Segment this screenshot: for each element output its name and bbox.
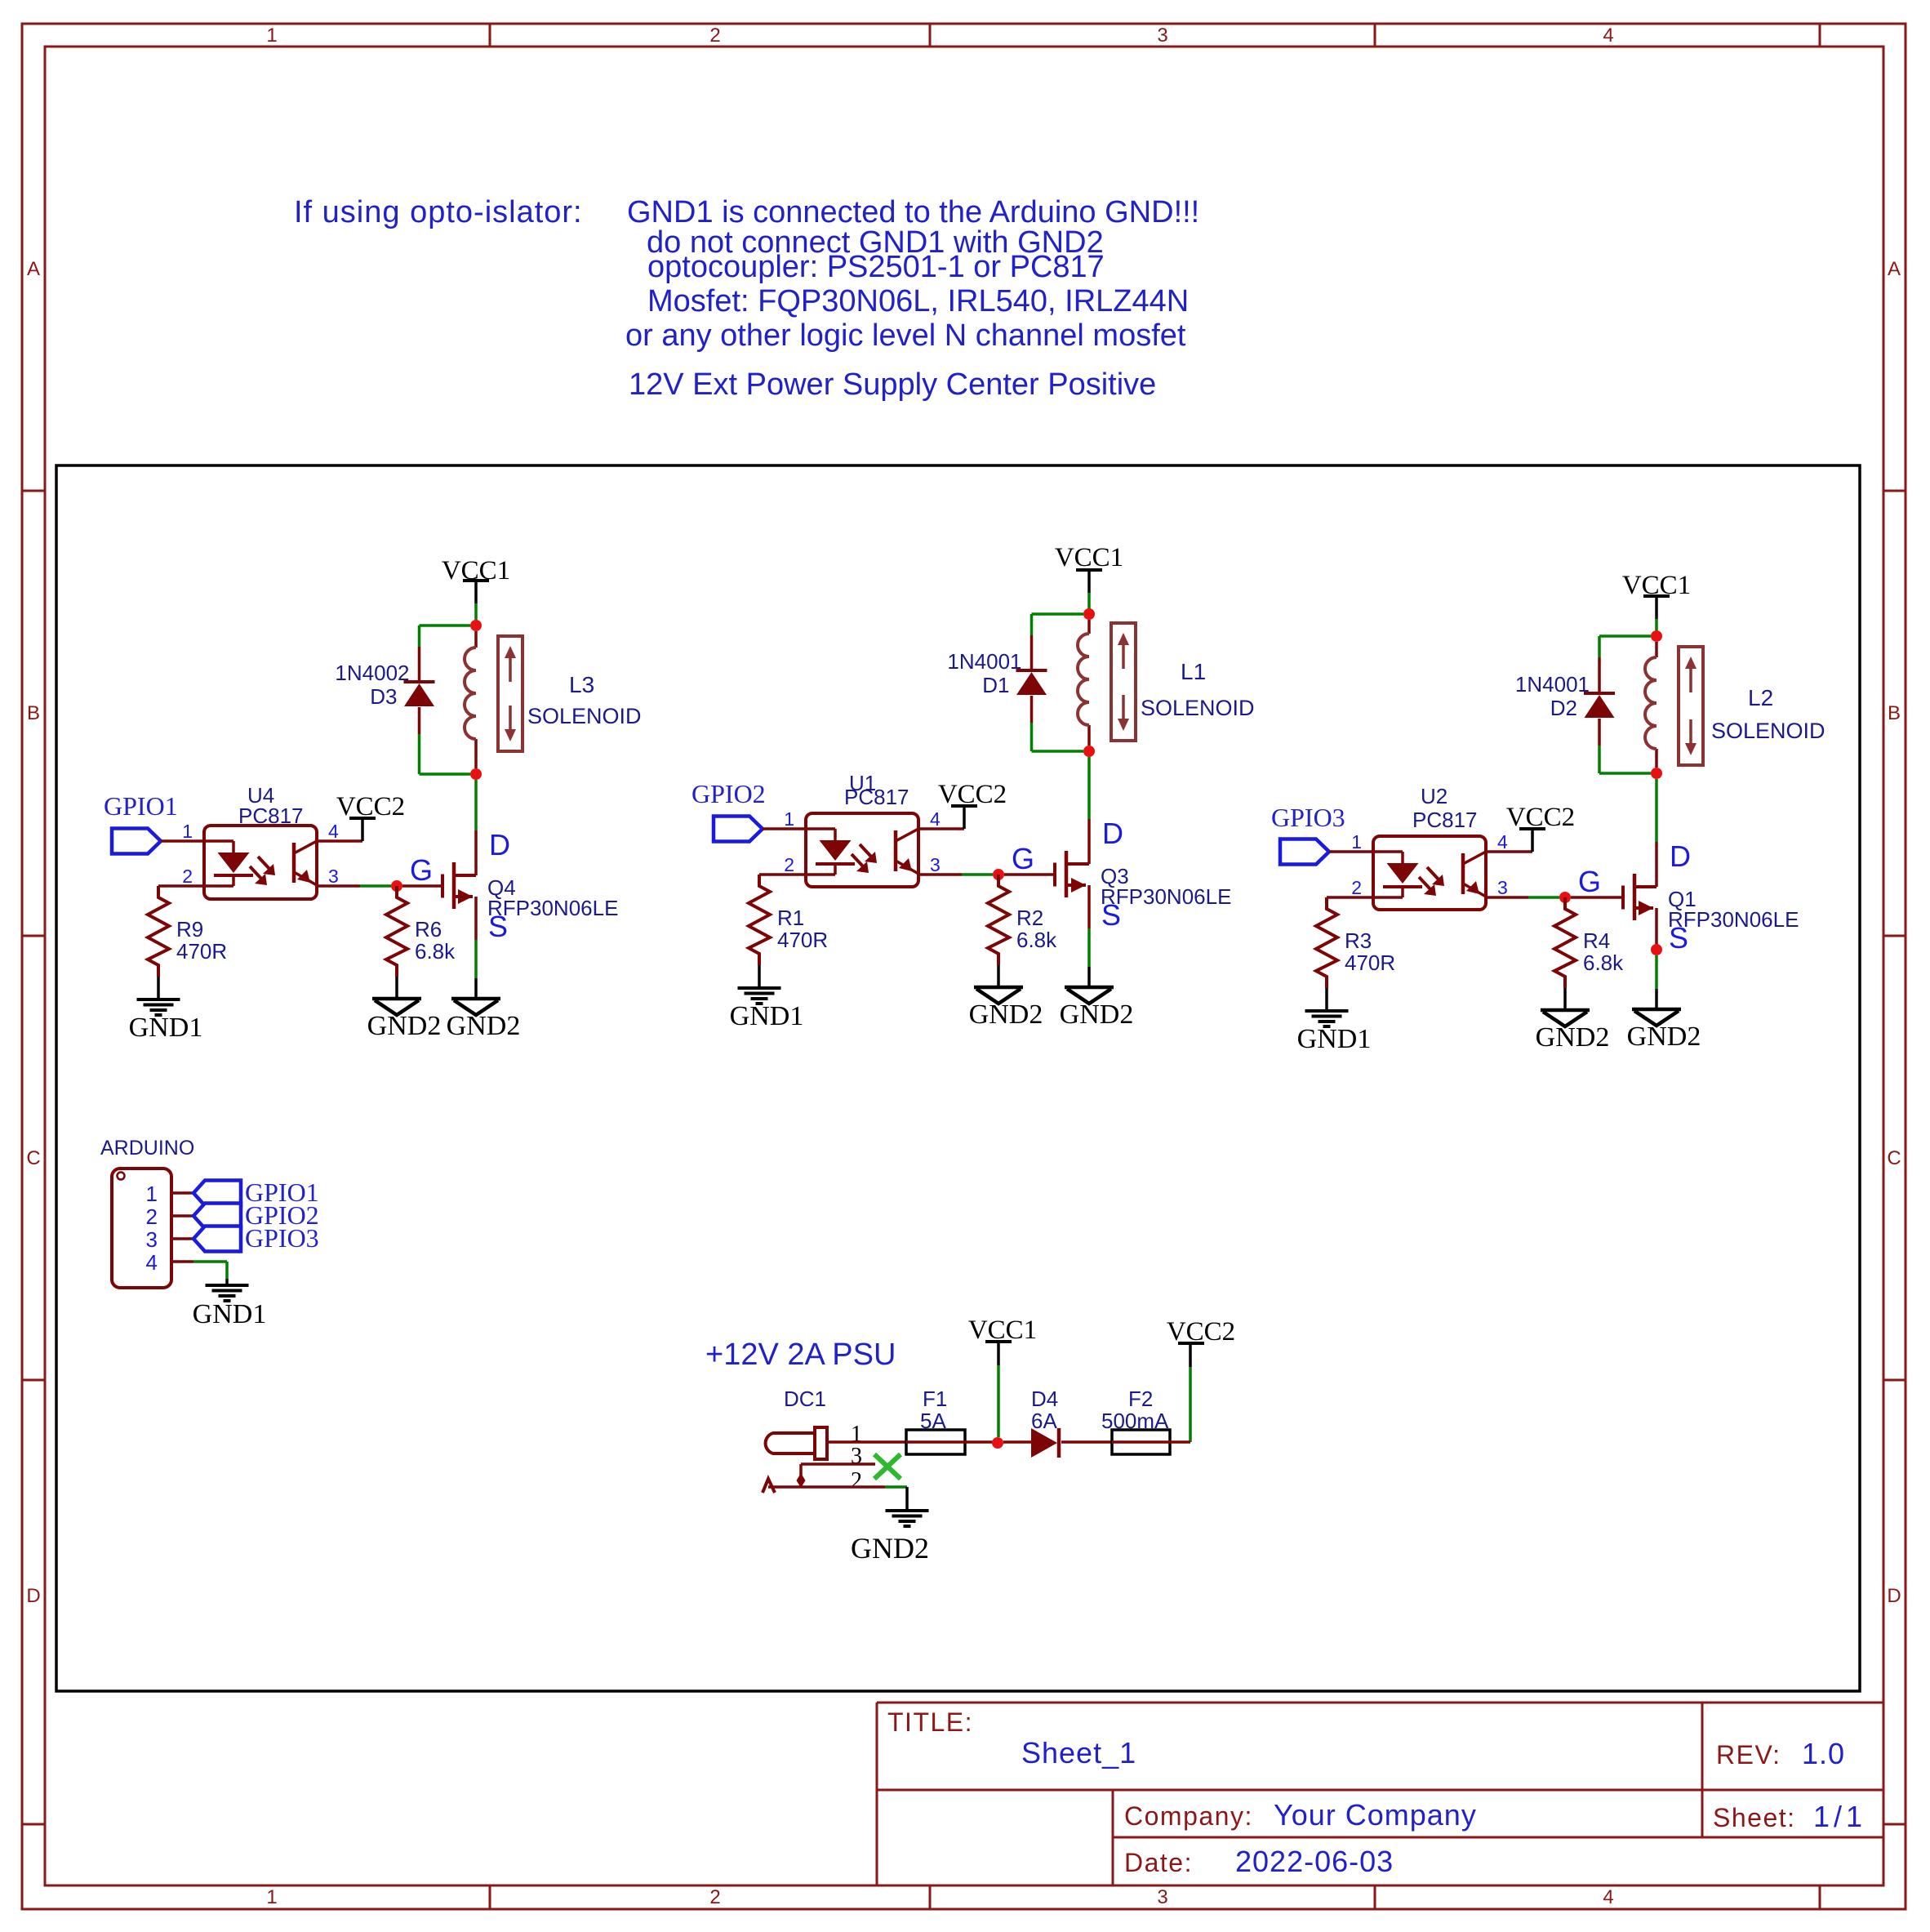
svg-text:6.8k: 6.8k <box>415 939 456 964</box>
resistor R3 470R <box>1316 897 1337 988</box>
svg-text:D3: D3 <box>370 684 397 709</box>
svg-text:GPIO3: GPIO3 <box>245 1223 319 1253</box>
svg-text:R4: R4 <box>1583 928 1610 953</box>
svg-text:1: 1 <box>182 821 193 842</box>
svg-text:470R: 470R <box>1345 950 1395 975</box>
svg-text:D: D <box>1670 839 1691 873</box>
resistor R2 6.8k <box>988 875 1009 965</box>
net port GPIO1 <box>112 829 161 854</box>
wire pin4 to VCC2 <box>317 839 362 843</box>
wire VCC1 stem <box>1087 571 1091 593</box>
wire resistor to GND1 <box>1325 988 1328 1009</box>
svg-text:12V Ext Power Supply Center Po: 12V Ext Power Supply Center Positive <box>629 367 1156 402</box>
svg-text:D: D <box>1102 817 1123 850</box>
svg-text:ARDUINO: ARDUINO <box>100 1137 194 1160</box>
svg-text:PC817: PC817 <box>238 804 304 828</box>
wire source <box>1087 885 1091 928</box>
wire diode D1 anode/cathode stubs <box>1030 635 1034 670</box>
svg-text:GND2: GND2 <box>1536 1022 1610 1053</box>
power symbol VCC1 (Q1 drain branch) <box>1622 571 1691 600</box>
svg-text:+12V 2A PSU: +12V 2A PSU <box>705 1338 896 1372</box>
svg-text:GND2: GND2 <box>1627 1022 1701 1052</box>
svg-text:Company:: Company: <box>1124 1801 1253 1831</box>
svg-text:A: A <box>27 258 40 280</box>
net port GPIO3 (ARDUINO side) <box>193 1226 241 1252</box>
svg-text:6.8k: 6.8k <box>1583 950 1624 975</box>
svg-text:2: 2 <box>1351 877 1362 898</box>
wire VCC1 stem <box>474 581 478 603</box>
svg-text:DC1: DC1 <box>784 1387 826 1411</box>
fuse F1 5A <box>906 1430 965 1454</box>
wire diode bottom <box>418 707 421 734</box>
svg-text:D: D <box>1887 1585 1901 1607</box>
svg-text:6A: 6A <box>1031 1409 1057 1433</box>
node junction top (VCC1) <box>470 620 482 631</box>
resistor R4 6.8k <box>1554 897 1576 988</box>
svg-text:R3: R3 <box>1345 928 1372 953</box>
net port GPIO3 <box>1280 839 1329 865</box>
net port GPIO1 (ARDUINO side) <box>193 1181 241 1206</box>
svg-text:C: C <box>26 1147 40 1169</box>
row ticks left/right <box>22 490 45 492</box>
svg-text:A: A <box>1888 258 1901 280</box>
svg-text:GND2: GND2 <box>367 1011 442 1041</box>
svg-text:D: D <box>489 828 510 861</box>
wire resistor to GND2 <box>1563 988 1567 1009</box>
node junction bottom (drain) <box>470 768 482 780</box>
wire pin3 to gate junction <box>1486 896 1528 899</box>
wire pin3 to gate junction <box>317 884 360 888</box>
ground GND2 (source) <box>451 999 500 1015</box>
wire diode D2 anode/cathode stubs <box>1598 657 1601 693</box>
svg-text:GND1: GND1 <box>193 1299 267 1329</box>
transistor Q4 RFP30N06LE <box>442 862 476 909</box>
svg-text:SOLENOID: SOLENOID <box>1711 719 1825 743</box>
svg-text:GND2: GND2 <box>447 1011 521 1041</box>
node junction top (VCC1) <box>1651 630 1662 642</box>
connector DC1 barrel jack <box>766 1427 827 1459</box>
svg-text:R2: R2 <box>1016 906 1043 930</box>
ground GND2 (gate resistor) <box>1541 1010 1590 1026</box>
node gate junction <box>1559 892 1571 903</box>
wire junction to D4 <box>1003 1440 1031 1444</box>
node junction bottom (drain) <box>1651 768 1662 779</box>
svg-text:B: B <box>1888 702 1901 724</box>
fuse F2 500mA <box>1112 1430 1170 1454</box>
ground GND1 <box>738 986 781 1005</box>
wire resistor to GND1 <box>157 977 160 998</box>
power symbol VCC2 <box>336 792 405 821</box>
svg-text:1N4001: 1N4001 <box>1515 672 1590 697</box>
svg-text:3: 3 <box>1497 877 1508 898</box>
pin 2 stub (ARDUINO) <box>171 1214 193 1218</box>
column ticks top/bottom <box>489 24 491 47</box>
wire VCC2 stem (PSU) <box>1189 1344 1192 1367</box>
wire D4 to F2 <box>1061 1440 1112 1444</box>
wire diode bottom <box>1030 696 1034 723</box>
svg-text:GPIO2: GPIO2 <box>692 779 766 808</box>
svg-text:3: 3 <box>930 854 941 875</box>
wire drain <box>1655 779 1658 842</box>
svg-text:SOLENOID: SOLENOID <box>1141 696 1255 720</box>
node junction top (VCC1) <box>1083 608 1095 620</box>
svg-text:Sheet_1: Sheet_1 <box>1021 1736 1136 1770</box>
power symbol VCC1 (PSU) <box>968 1315 1037 1345</box>
wire pin2 to resistor <box>759 873 806 876</box>
svg-text:3: 3 <box>1157 1886 1167 1908</box>
svg-text:1: 1 <box>266 24 277 47</box>
solenoid body L2 <box>1679 647 1703 765</box>
svg-text:4: 4 <box>146 1250 158 1275</box>
wire pin3 to gate junction <box>918 873 962 876</box>
svg-text:S: S <box>488 910 508 943</box>
svg-text:4: 4 <box>1497 831 1508 852</box>
wire inductor leads <box>1087 620 1091 634</box>
svg-text:1: 1 <box>266 1886 277 1908</box>
svg-text:4: 4 <box>1603 24 1613 47</box>
svg-text:R1: R1 <box>777 906 804 930</box>
wire inductor leads <box>1655 642 1658 657</box>
svg-text:optocoupler: PS2501-1 or PC817: optocoupler: PS2501-1 or PC817 <box>647 250 1105 284</box>
svg-text:470R: 470R <box>176 939 227 964</box>
DC1 switch link <box>799 1464 803 1487</box>
optocoupler U2 PC817 <box>1373 836 1486 910</box>
svg-text:Date:: Date: <box>1124 1848 1193 1877</box>
svg-text:Mosfet: FQP30N06L, IRL540, IRL: Mosfet: FQP30N06L, IRL540, IRLZ44N <box>647 284 1189 318</box>
svg-text:2: 2 <box>784 854 794 875</box>
svg-text:GND1: GND1 <box>1297 1024 1372 1054</box>
svg-text:1: 1 <box>784 808 794 830</box>
svg-text:GND1: GND1 <box>129 1013 203 1043</box>
wire junction to gate <box>1571 896 1623 899</box>
wire source <box>474 897 478 940</box>
wire GPIO flag to pin 1 <box>763 827 806 830</box>
wire VCC1 stem <box>1655 597 1658 619</box>
svg-text:3: 3 <box>146 1227 158 1252</box>
DC1 sleeve contact <box>763 1479 775 1493</box>
svg-text:1N4002: 1N4002 <box>335 661 409 685</box>
svg-text:R6: R6 <box>415 917 442 942</box>
svg-text:GPIO3: GPIO3 <box>1271 803 1345 832</box>
ground GND2 (PSU) <box>886 1509 929 1528</box>
svg-text:D1: D1 <box>982 673 1009 697</box>
svg-text:VCC1: VCC1 <box>1055 543 1123 572</box>
wire DC1 pin1 to F1 <box>827 1440 906 1444</box>
wire drain <box>474 780 478 830</box>
wire pin2 to GND2 <box>905 1487 909 1509</box>
power symbol VCC2 (PSU) <box>1167 1317 1235 1347</box>
diode D1 1N4001 <box>1016 670 1047 695</box>
svg-text:2022-06-03: 2022-06-03 <box>1235 1845 1394 1878</box>
ground GND1 <box>137 998 180 1017</box>
svg-text:2: 2 <box>182 866 193 887</box>
svg-text:GND1 is connected to the Ardui: GND1 is connected to the Arduino GND!!! <box>627 195 1199 229</box>
wire diode D3 anode/cathode stubs <box>418 647 421 682</box>
svg-text:D4: D4 <box>1031 1387 1058 1411</box>
wire junction to gate <box>1004 873 1055 876</box>
wire DC1 pin3 (switch) <box>801 1462 875 1466</box>
pin 4 stub (ARDUINO) <box>171 1260 193 1263</box>
wire GPIO flag to pin 1 <box>161 839 204 843</box>
svg-text:S: S <box>1101 898 1121 932</box>
svg-text:GND1: GND1 <box>730 1001 804 1031</box>
wire pin2 to resistor <box>158 884 204 888</box>
svg-text:PC817: PC817 <box>1412 808 1478 832</box>
svg-text:S: S <box>1669 921 1688 955</box>
net port GPIO2 <box>714 817 763 842</box>
wire top junction to diode <box>420 624 471 627</box>
title block frame <box>877 1703 1883 1885</box>
svg-text:U2: U2 <box>1421 784 1447 808</box>
svg-text:6.8k: 6.8k <box>1016 928 1057 952</box>
resistor R1 470R <box>749 875 770 965</box>
connector ARDUINO header <box>112 1169 171 1288</box>
wire inductor leads <box>474 631 478 648</box>
optocoupler U1 PC817 <box>806 813 918 887</box>
wire top junction to diode <box>1599 634 1651 638</box>
wire source <box>1655 908 1658 950</box>
wire GPIO flag to pin 1 <box>1329 850 1373 853</box>
svg-text:GND2: GND2 <box>851 1532 929 1565</box>
inductor L2 coil <box>1645 657 1657 749</box>
node source junction <box>1651 944 1662 955</box>
svg-text:2: 2 <box>146 1204 158 1229</box>
optocoupler U4 PC817 <box>204 826 317 899</box>
net port GPIO2 (ARDUINO side) <box>193 1204 241 1229</box>
node VCC1 junction (PSU) <box>992 1437 1003 1449</box>
svg-text:Sheet:: Sheet: <box>1713 1803 1796 1832</box>
svg-text:C: C <box>1887 1147 1901 1169</box>
wire VCC1 stem (PSU) <box>997 1342 1000 1365</box>
svg-text:D: D <box>26 1585 40 1607</box>
svg-text:TITLE:: TITLE: <box>887 1707 973 1737</box>
wire pin4 to VCC2 <box>1486 850 1532 853</box>
svg-text:2: 2 <box>709 1886 720 1908</box>
wire resistor to GND2 <box>395 977 398 998</box>
svg-text:L2: L2 <box>1748 685 1773 710</box>
svg-text:1: 1 <box>1351 831 1362 852</box>
svg-text:D2: D2 <box>1550 696 1577 720</box>
svg-text:1N4001: 1N4001 <box>947 649 1021 674</box>
svg-text:3: 3 <box>328 866 339 887</box>
ground GND2 (source) <box>1065 987 1114 1004</box>
solenoid body L3 <box>498 636 523 751</box>
solenoid body L1 <box>1111 623 1136 741</box>
svg-text:F1: F1 <box>923 1387 947 1411</box>
wire DC1 pin2 <box>768 1485 885 1489</box>
wire F2 to VCC2 <box>1170 1440 1190 1444</box>
pin 3 stub (ARDUINO) <box>171 1237 193 1240</box>
inductor L3 coil <box>465 648 476 739</box>
svg-text:Your Company: Your Company <box>1274 1798 1477 1832</box>
svg-text:G: G <box>410 853 433 887</box>
svg-text:REV:: REV: <box>1716 1740 1781 1770</box>
no-connect X on pin 3 <box>874 1454 901 1479</box>
svg-text:F2: F2 <box>1128 1387 1153 1411</box>
resistor R9 470R <box>148 886 169 977</box>
node gate junction <box>993 869 1004 880</box>
svg-text:5A: 5A <box>920 1409 946 1433</box>
svg-text:GPIO1: GPIO1 <box>104 791 178 821</box>
svg-text:GND2: GND2 <box>1060 999 1134 1030</box>
wire pin2 to resistor <box>1327 896 1373 899</box>
power symbol VCC2 <box>938 780 1007 809</box>
power symbol VCC1 (Q3 drain branch) <box>1055 543 1123 572</box>
svg-text:G: G <box>1578 865 1601 898</box>
schematic area border <box>56 465 1860 1691</box>
power symbol VCC1 (Q4 drain branch) <box>442 556 510 585</box>
svg-text:3: 3 <box>1157 24 1167 47</box>
node gate junction <box>391 880 402 892</box>
wire pin4 to VCC2 <box>918 827 964 830</box>
diode D2 1N4001 <box>1584 693 1615 718</box>
wire top junction to diode <box>1032 612 1084 616</box>
svg-text:PC817: PC817 <box>844 785 909 809</box>
ground GND2 (source) <box>1632 1009 1681 1026</box>
svg-text:SOLENOID: SOLENOID <box>527 704 642 728</box>
wire resistor to GND1 <box>758 965 761 986</box>
node junction bottom (drain) <box>1083 746 1095 757</box>
svg-text:1.0: 1.0 <box>1802 1737 1845 1770</box>
diode D4 6A <box>1031 1428 1059 1458</box>
svg-text:470R: 470R <box>777 928 828 952</box>
pin 1 stub (ARDUINO) <box>171 1191 193 1195</box>
svg-text:1: 1 <box>146 1182 158 1206</box>
svg-text:R9: R9 <box>176 917 203 942</box>
svg-text:4: 4 <box>930 808 941 830</box>
inductor L1 coil <box>1078 634 1089 725</box>
wire pin4 to GND1 <box>193 1260 227 1263</box>
ground GND1 (ARDUINO) <box>206 1284 249 1302</box>
svg-text:or any other logic level N cha: or any other logic level N channel mosfe… <box>625 318 1186 353</box>
ground GND2 (gate resistor) <box>372 999 421 1015</box>
svg-text:4: 4 <box>328 821 339 842</box>
wire diode bottom <box>1598 719 1601 746</box>
wire drain <box>1087 757 1091 819</box>
svg-text:2: 2 <box>709 24 720 47</box>
diode D3 1N4002 <box>404 682 435 706</box>
svg-text:L3: L3 <box>569 672 594 697</box>
ground GND1 <box>1305 1009 1349 1028</box>
svg-text:If using opto-islator:: If using opto-islator: <box>294 195 583 229</box>
wire resistor to GND2 <box>997 965 1000 986</box>
svg-text:2: 2 <box>851 1468 862 1494</box>
svg-text:G: G <box>1012 842 1034 875</box>
svg-text:500mA: 500mA <box>1101 1409 1169 1433</box>
svg-text:GND2: GND2 <box>969 999 1043 1030</box>
transistor Q3 RFP30N06LE <box>1055 851 1089 897</box>
svg-text:B: B <box>27 702 40 724</box>
power symbol VCC2 <box>1506 803 1575 832</box>
ground GND2 (gate resistor) <box>974 987 1023 1004</box>
svg-text:1/1: 1/1 <box>1813 1800 1866 1833</box>
resistor R6 6.8k <box>386 886 407 977</box>
svg-text:L1: L1 <box>1181 659 1206 684</box>
wire junction to gate <box>402 884 442 888</box>
transistor Q1 RFP30N06LE <box>1623 874 1657 920</box>
svg-text:4: 4 <box>1603 1886 1613 1908</box>
wire F1 to junction <box>965 1440 993 1444</box>
